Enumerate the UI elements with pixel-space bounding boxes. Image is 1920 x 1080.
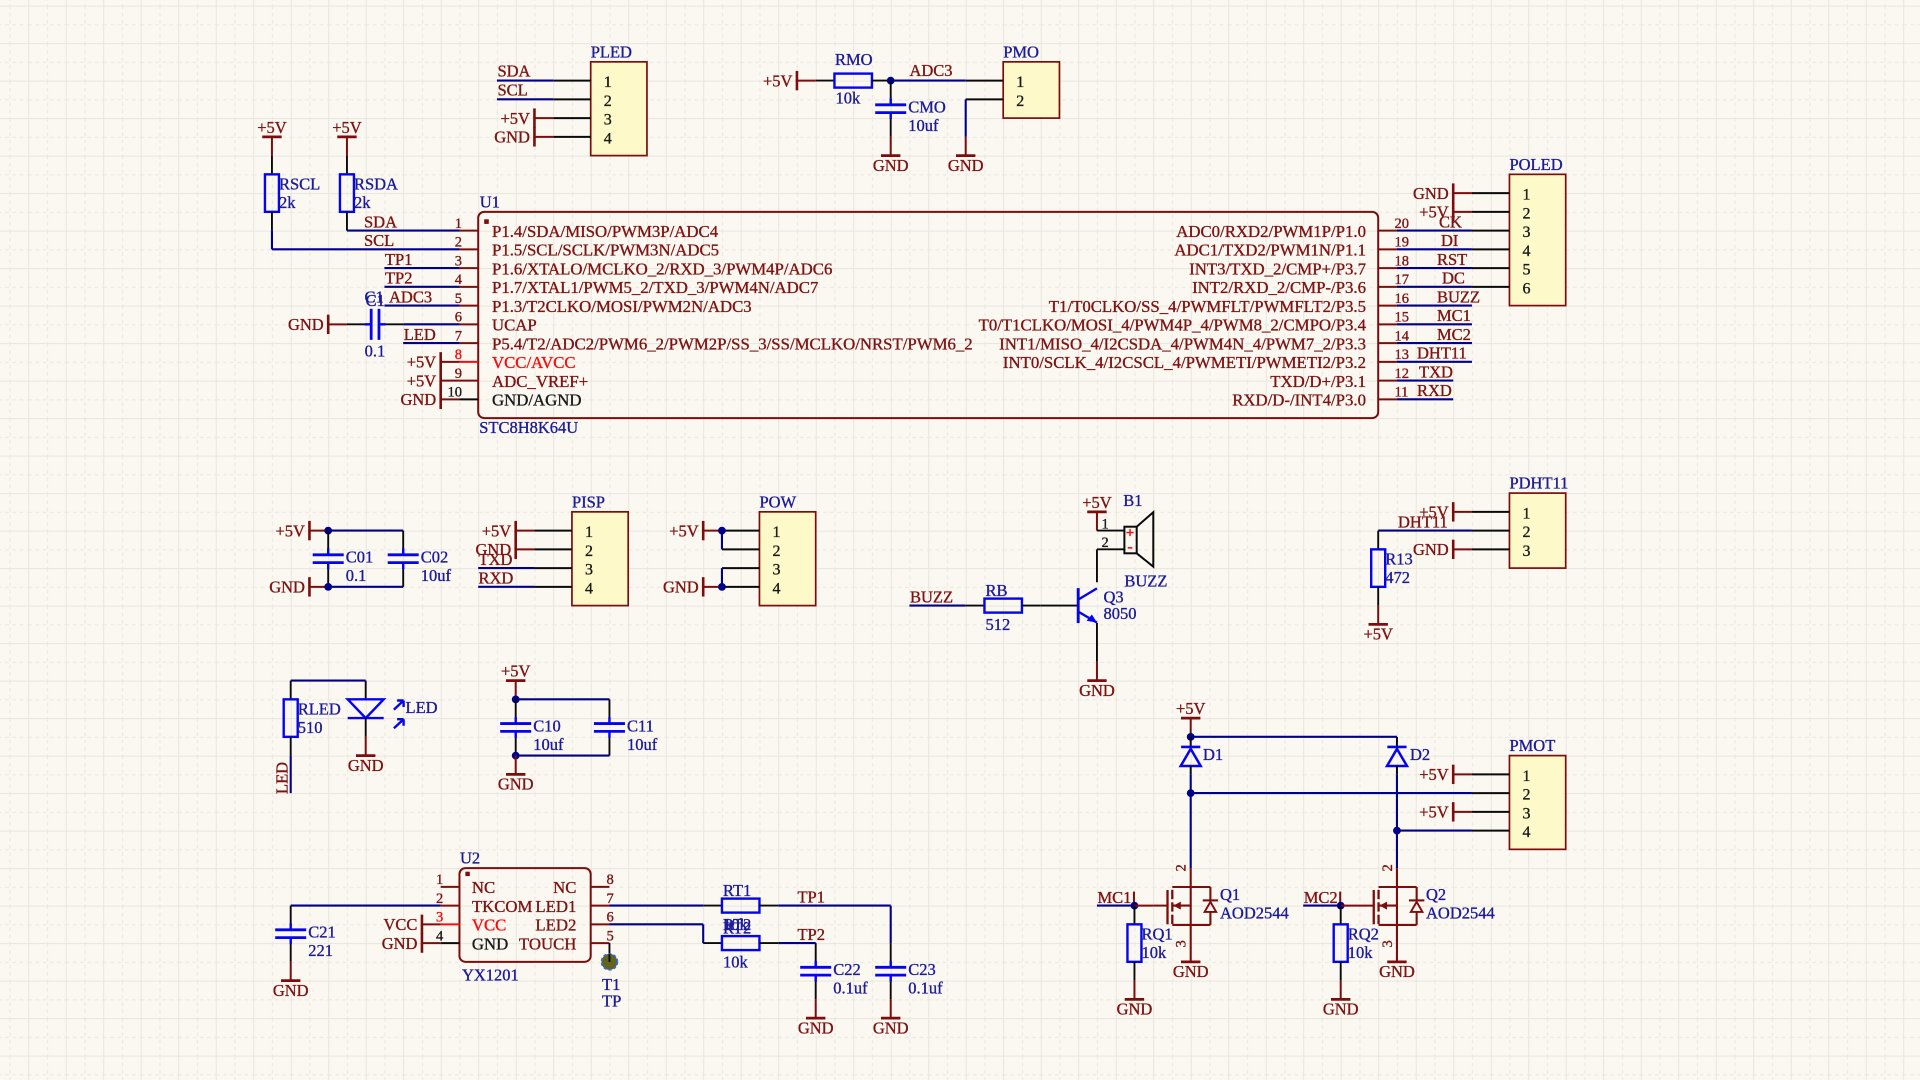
svg-text:1: 1 xyxy=(1102,516,1109,532)
svg-text:+5V: +5V xyxy=(407,371,437,390)
wire net BUZZ (RB) xyxy=(909,605,965,607)
U1 pin 20 (P1.0) xyxy=(1176,216,1409,241)
net label TXD (PISP) xyxy=(479,550,513,569)
svg-text:10k: 10k xyxy=(1141,943,1167,962)
svg-text:4: 4 xyxy=(436,928,444,944)
wire net RXD (U1 right) xyxy=(1397,398,1453,400)
svg-text:BUZZ: BUZZ xyxy=(910,587,953,606)
svg-text:TP2: TP2 xyxy=(797,925,825,944)
capacitor CMO 10uf xyxy=(875,81,946,137)
svg-text:5: 5 xyxy=(1522,262,1530,279)
ground GND port (C01) xyxy=(269,577,309,596)
wire +5V to RMO xyxy=(797,80,816,82)
svg-text:-: - xyxy=(1127,539,1132,556)
wire D1 top to D2 top xyxy=(1191,736,1397,738)
svg-text:INT2/RXD_2/CMP-/P3.6: INT2/RXD_2/CMP-/P3.6 xyxy=(1192,278,1366,297)
ground GND port (PISP pin2) xyxy=(475,540,515,559)
B1 pin 2 number xyxy=(1102,535,1109,551)
svg-text:1: 1 xyxy=(585,524,593,541)
U1 pin 18 (P3.7) xyxy=(1189,253,1409,278)
svg-text:GND: GND xyxy=(382,934,418,953)
ground GND port (POW pin4) xyxy=(663,577,703,596)
svg-text:GND: GND xyxy=(472,934,508,953)
svg-text:GND: GND xyxy=(663,578,699,597)
wire LED to GND stem xyxy=(365,737,367,756)
power +5V port (PDHT11 pin1) xyxy=(1419,502,1453,521)
svg-text:3: 3 xyxy=(1174,940,1190,947)
wire PMO pin2 down xyxy=(965,99,967,137)
U2 pin 1 (NC) xyxy=(436,872,495,897)
power +5V port (B1) xyxy=(1082,493,1112,512)
resistor R13 472 xyxy=(1371,531,1413,606)
svg-text:TXD: TXD xyxy=(1419,362,1453,381)
svg-text:1: 1 xyxy=(1522,768,1530,785)
svg-text:AOD2544: AOD2544 xyxy=(1220,904,1289,923)
wire RT2 to TP2 corner xyxy=(778,942,816,944)
svg-text:+5V: +5V xyxy=(407,353,437,372)
svg-text:STC8H8K64U: STC8H8K64U xyxy=(479,418,578,437)
junction C10 top xyxy=(512,695,520,703)
capacitor C23 0.1uf xyxy=(875,943,943,999)
junction POW pin4 xyxy=(718,583,726,591)
transistor Q1 AOD2544 xyxy=(1168,864,1219,962)
wire CMO to GND xyxy=(890,137,892,156)
svg-text:2: 2 xyxy=(1522,787,1530,804)
svg-text:12: 12 xyxy=(1394,366,1409,382)
net label SDA (U1 pin1) xyxy=(364,212,397,231)
ground GND port (PDHT11 pin3) xyxy=(1413,540,1453,559)
label 8050 xyxy=(1103,604,1136,623)
svg-text:T0/T1CLKO/MOSI_4/PWM4P_4/PWM8_: T0/T1CLKO/MOSI_4/PWM4P_4/PWM8_2/CMPO/P3.… xyxy=(979,316,1367,335)
svg-text:+5V: +5V xyxy=(332,118,362,137)
svg-text:PMOT: PMOT xyxy=(1509,736,1555,755)
svg-text:C23: C23 xyxy=(908,960,936,979)
svg-text:TP: TP xyxy=(602,992,621,1011)
net label DI xyxy=(1441,231,1458,250)
wire RB to Q3 base xyxy=(1041,605,1079,607)
svg-text:+5V: +5V xyxy=(501,662,531,681)
wire +5V to RSCL xyxy=(271,137,273,156)
buzzer B1 xyxy=(1124,512,1153,567)
wire net DHT11 (PDHT11 pin2) xyxy=(1378,530,1472,532)
U1 pin 9 (ADC_VREF+) xyxy=(455,366,588,391)
U1 pin 4 (P1.7) xyxy=(455,272,819,297)
wire net MC2 (gate) xyxy=(1303,905,1341,907)
svg-text:CK: CK xyxy=(1439,212,1462,231)
ground GND port (C1) xyxy=(288,315,328,334)
svg-text:RXD/D-/INT4/P3.0: RXD/D-/INT4/P3.0 xyxy=(1232,391,1366,410)
ground GND port (C21) xyxy=(273,981,309,1000)
label D2 xyxy=(1410,745,1430,764)
wire RT1 to TP1 corner xyxy=(778,906,891,944)
svg-text:221: 221 xyxy=(308,941,333,960)
resistor RT1 10k xyxy=(703,881,778,934)
wire +5V to PDHT11 pin1 xyxy=(1453,511,1472,513)
svg-text:RB: RB xyxy=(985,581,1007,600)
net label SDA (PLED) xyxy=(497,62,530,81)
svg-text:10k: 10k xyxy=(835,88,861,107)
power +5V port (POW pin1) xyxy=(669,521,703,540)
svg-text:10: 10 xyxy=(447,385,462,401)
ground GND port (PLED pin4) xyxy=(494,127,534,146)
label B1 xyxy=(1123,491,1142,510)
wire +5V to POW node xyxy=(703,530,722,532)
svg-text:19: 19 xyxy=(1394,235,1409,251)
svg-text:LED: LED xyxy=(406,698,438,717)
svg-text:P1.5/SCL/SCLK/PWM3N/ADC5: P1.5/SCL/SCLK/PWM3N/ADC5 xyxy=(492,241,719,260)
svg-text:15: 15 xyxy=(1394,310,1409,326)
ground GND port (Q1) xyxy=(1173,962,1209,981)
svg-text:5: 5 xyxy=(455,291,462,307)
svg-text:B1: B1 xyxy=(1123,491,1142,510)
svg-text:P5.4/T2/ADC2/PWM6_2/PWM2P/SS_3: P5.4/T2/ADC2/PWM6_2/PWM2P/SS_3/SS/MCLKO/… xyxy=(492,334,973,353)
svg-text:2: 2 xyxy=(1102,535,1109,551)
connector PISP xyxy=(534,492,628,605)
junction D1 top xyxy=(1187,733,1195,741)
svg-text:4: 4 xyxy=(585,580,593,597)
svg-text:LED: LED xyxy=(404,325,436,344)
svg-text:9: 9 xyxy=(455,366,462,382)
transistor Q3 8050 xyxy=(1078,588,1097,623)
svg-text:TP1: TP1 xyxy=(385,250,413,269)
net label CK xyxy=(1439,212,1462,231)
U1 pin 6 (UCAP) xyxy=(455,310,537,335)
svg-text:4: 4 xyxy=(1522,824,1530,841)
ground GND port (CMO) xyxy=(873,156,909,175)
wire C1 to U1 pin6 xyxy=(403,323,459,325)
net label RXD (PISP) xyxy=(479,569,514,588)
wire Q3 collector to B1 xyxy=(1097,549,1124,582)
svg-text:RMO: RMO xyxy=(835,50,873,69)
wire C10 GND stem xyxy=(515,756,517,775)
wire C01 to C02 top xyxy=(328,530,403,532)
svg-text:2: 2 xyxy=(1174,864,1190,871)
svg-text:TP1: TP1 xyxy=(797,887,825,906)
wire GND to C01 node xyxy=(309,586,328,588)
label AOD2544 (Q2) xyxy=(1426,904,1495,923)
capacitor C10 10uf xyxy=(500,699,564,755)
U2 pin 6 (LED2) xyxy=(535,910,613,935)
power +5V port (PLED pin3) xyxy=(500,108,534,127)
net label RXD xyxy=(1417,381,1452,400)
wire net TKCOM to C21 xyxy=(291,905,441,907)
power +5V port (PMOT pin1) xyxy=(1419,765,1453,784)
svg-text:3: 3 xyxy=(585,562,593,579)
wire Q3 emitter to GND xyxy=(1096,623,1098,662)
net label SCL (PLED) xyxy=(497,80,527,99)
junction C10 bottom xyxy=(512,752,520,760)
svg-text:TXD: TXD xyxy=(479,550,513,569)
svg-text:RST: RST xyxy=(1437,250,1467,269)
wire MC1 junction to gate xyxy=(1134,905,1167,907)
wire net MC2 (U1 right) xyxy=(1397,342,1472,344)
svg-text:MC1: MC1 xyxy=(1437,306,1471,325)
label Q1 xyxy=(1220,885,1240,904)
svg-text:GND: GND xyxy=(1173,962,1209,981)
svg-text:ADC0/RXD2/PWM1P/P1.0: ADC0/RXD2/PWM1P/P1.0 xyxy=(1176,222,1366,241)
power +5V port (RMO) xyxy=(763,71,797,90)
test point T1 xyxy=(601,943,617,970)
wire motor A to Q1 drain xyxy=(1190,793,1192,868)
svg-text:GND: GND xyxy=(269,578,305,597)
svg-text:UCAP: UCAP xyxy=(492,316,537,335)
wire R13 to +5V stem xyxy=(1377,606,1379,625)
U1 pin 19 (P1.1) xyxy=(1174,235,1409,260)
svg-text:1: 1 xyxy=(436,872,443,888)
wire motor A net to PMOT pin2 xyxy=(1191,792,1472,794)
svg-text:0.1: 0.1 xyxy=(346,566,367,585)
wire C21 GND stem xyxy=(290,962,292,981)
net label ADC3 (U1 pin5) xyxy=(389,287,432,306)
svg-text:POW: POW xyxy=(759,492,796,511)
wire net TXD (U1 right) xyxy=(1397,380,1453,382)
svg-text:RT2: RT2 xyxy=(723,918,751,937)
svg-text:6: 6 xyxy=(1522,280,1530,297)
U2 pin 3 (VCC) xyxy=(436,910,506,935)
wire MC2 junction to gate xyxy=(1341,905,1374,907)
svg-text:C21: C21 xyxy=(308,923,336,942)
svg-text:AOD2544: AOD2544 xyxy=(1426,904,1495,923)
svg-text:4: 4 xyxy=(1522,243,1530,260)
svg-text:TP2: TP2 xyxy=(385,269,413,288)
svg-text:1: 1 xyxy=(604,74,612,91)
svg-text:C1: C1 xyxy=(366,291,385,310)
wire +5V to PMOT pin1 xyxy=(1453,773,1472,775)
svg-text:2: 2 xyxy=(436,891,443,907)
wire +5V to C01 node xyxy=(309,530,328,532)
svg-text:D2: D2 xyxy=(1410,745,1430,764)
connector PLED xyxy=(553,42,647,155)
svg-text:4: 4 xyxy=(772,580,780,597)
net label ADC3 (PMO) xyxy=(909,61,952,80)
svg-text:10k: 10k xyxy=(1348,943,1374,962)
wire C23 GND stem xyxy=(890,999,892,1018)
svg-text:GND: GND xyxy=(1117,1000,1153,1019)
wire GND to U2 pin4 xyxy=(422,942,441,944)
wire net ADC3 (U1 pin5) xyxy=(384,305,459,307)
net label DC xyxy=(1442,269,1465,288)
svg-text:VCC/AVCC: VCC/AVCC xyxy=(492,353,576,372)
svg-text:GND: GND xyxy=(1379,962,1415,981)
svg-text:+5V: +5V xyxy=(1176,699,1206,718)
svg-text:Q1: Q1 xyxy=(1220,885,1240,904)
svg-text:CMO: CMO xyxy=(908,98,946,117)
svg-text:ADC_VREF+: ADC_VREF+ xyxy=(492,372,588,391)
svg-text:+5V: +5V xyxy=(500,109,530,128)
svg-text:1: 1 xyxy=(455,216,462,232)
svg-text:GND: GND xyxy=(873,1018,909,1037)
svg-text:6: 6 xyxy=(606,910,613,926)
label Q2 xyxy=(1426,885,1446,904)
svg-text:GND: GND xyxy=(400,390,436,409)
svg-text:18: 18 xyxy=(1394,253,1409,269)
U2 pin 7 (LED1) xyxy=(535,891,613,916)
net label TXD xyxy=(1419,362,1453,381)
wire node to PMO pin1 xyxy=(891,80,966,82)
svg-text:GND: GND xyxy=(1413,184,1449,203)
svg-text:PLED: PLED xyxy=(591,42,632,61)
wire RLED top link xyxy=(291,680,366,682)
svg-text:3: 3 xyxy=(1522,224,1530,241)
resistor RT2 10k xyxy=(703,918,778,971)
svg-text:C22: C22 xyxy=(833,960,861,979)
U1 pin 13 (P3.2) xyxy=(1003,347,1409,372)
wire net DHT11 (U1 right) xyxy=(1397,361,1472,363)
svg-text:20: 20 xyxy=(1394,216,1409,232)
svg-text:8: 8 xyxy=(606,872,613,888)
svg-text:LED1: LED1 xyxy=(535,897,576,916)
svg-text:ADC1/TXD2/PWM1N/P1.1: ADC1/TXD2/PWM1N/P1.1 xyxy=(1174,241,1366,260)
svg-text:POLED: POLED xyxy=(1509,155,1562,174)
svg-text:3: 3 xyxy=(1522,805,1530,822)
ground GND port (POLED pin1) xyxy=(1413,183,1453,202)
svg-text:10uf: 10uf xyxy=(533,735,564,754)
svg-text:+5V: +5V xyxy=(257,118,287,137)
svg-text:4: 4 xyxy=(604,130,612,147)
svg-text:11: 11 xyxy=(1394,385,1408,401)
svg-text:10k: 10k xyxy=(723,953,749,972)
svg-text:14: 14 xyxy=(1394,328,1409,344)
label TP xyxy=(602,992,621,1011)
ground GND port (Q2) xyxy=(1379,962,1415,981)
svg-text:GND: GND xyxy=(1323,1000,1359,1019)
wire +5V to PISP pin1 xyxy=(516,530,535,532)
svg-text:510: 510 xyxy=(298,718,323,737)
net label TP2 (U1 pin4) xyxy=(385,269,413,288)
svg-text:C11: C11 xyxy=(627,716,654,735)
U1 pin 1 (P1.4) xyxy=(455,216,719,241)
B1 pin 1 number xyxy=(1102,516,1109,532)
svg-text:5: 5 xyxy=(606,928,613,944)
resistor RLED 510 xyxy=(284,681,341,756)
svg-text:+5V: +5V xyxy=(275,521,305,540)
power +5V port (R13) xyxy=(1363,624,1393,643)
svg-text:2: 2 xyxy=(585,543,593,560)
svg-text:10uf: 10uf xyxy=(421,566,452,585)
svg-text:MC1: MC1 xyxy=(1097,888,1131,907)
U1 pin 15 (P3.4) xyxy=(979,310,1409,335)
svg-text:2: 2 xyxy=(772,543,780,560)
svg-text:RT1: RT1 xyxy=(723,881,751,900)
label AOD2544 (Q1) xyxy=(1220,904,1289,923)
wire C10 to C11 top xyxy=(516,698,610,700)
svg-text:3: 3 xyxy=(1380,940,1396,947)
svg-text:2k: 2k xyxy=(279,193,296,212)
wire +5V to U1 pin9 xyxy=(441,380,460,382)
wire +5V to POLED pin2 xyxy=(1453,211,1472,213)
svg-text:3: 3 xyxy=(455,253,462,269)
svg-text:+5V: +5V xyxy=(1419,803,1449,822)
svg-text:RXD: RXD xyxy=(1417,381,1452,400)
svg-text:GND: GND xyxy=(873,156,909,175)
svg-text:512: 512 xyxy=(985,615,1010,634)
svg-text:2: 2 xyxy=(455,235,462,251)
power +5V port (PISP pin1) xyxy=(482,521,516,540)
wire motor B net to PMOT pin4 xyxy=(1397,830,1472,832)
resistor RQ2 10k xyxy=(1334,906,1379,981)
svg-text:6: 6 xyxy=(455,310,462,326)
wire net TP1 (U1 pin3) xyxy=(384,267,459,269)
power +5V port (C01) xyxy=(275,521,309,540)
svg-text:R13: R13 xyxy=(1385,549,1413,568)
svg-text:INT1/MISO_4/I2CSDA_4/PWM4N_4/P: INT1/MISO_4/I2CSDA_4/PWM4N_4/PWM7_2/P3.3 xyxy=(999,334,1366,353)
ground GND port (U2 pin4) xyxy=(382,933,422,952)
junction C01 top xyxy=(324,527,332,535)
svg-text:1: 1 xyxy=(1016,74,1024,91)
svg-text:16: 16 xyxy=(1394,291,1409,307)
svg-text:GND: GND xyxy=(798,1018,834,1037)
svg-text:10uf: 10uf xyxy=(627,735,658,754)
capacitor C01 0.1 xyxy=(313,531,374,587)
connector PDHT11 xyxy=(1472,474,1568,568)
wire net SDA to PLED pin1 xyxy=(497,80,553,82)
U1 pin 8 (VCC) xyxy=(455,347,576,372)
wire +5V to C10 node xyxy=(515,681,517,700)
svg-text:3: 3 xyxy=(436,910,443,926)
power +5V port (C10) xyxy=(501,662,531,681)
net label MC2 xyxy=(1437,325,1471,344)
power +5V port (PMOT pin3) xyxy=(1419,802,1453,821)
ground GND port (Q3) xyxy=(1079,681,1115,700)
wire RSCL to SCL net xyxy=(272,231,460,250)
svg-text:1: 1 xyxy=(1522,187,1530,204)
svg-text:C02: C02 xyxy=(421,548,449,567)
svg-text:2: 2 xyxy=(1380,864,1396,871)
svg-text:17: 17 xyxy=(1394,272,1409,288)
svg-text:2k: 2k xyxy=(354,193,371,212)
svg-text:SCL: SCL xyxy=(364,231,394,250)
svg-text:INT0/SCLK_4/I2CSCL_4/PWMETI/PW: INT0/SCLK_4/I2CSCL_4/PWMETI/PWMETI2/P3.2 xyxy=(1003,353,1366,372)
net label LED (vertical) xyxy=(273,762,292,794)
wire GND to PDHT11 pin3 xyxy=(1453,548,1472,550)
wire net DC (U1 right) xyxy=(1397,286,1472,288)
wire Q3 GND stem xyxy=(1096,662,1098,681)
junction D1 bottom xyxy=(1187,789,1195,797)
wire POW pin1-pin2 link xyxy=(721,531,723,550)
net label TP2 (RT2) xyxy=(797,925,825,944)
svg-text:TKCOM: TKCOM xyxy=(472,897,533,916)
svg-text:P1.6/XTALO/MCLKO_2/RXD_3/PWM4P: P1.6/XTALO/MCLKO_2/RXD_3/PWM4P/ADC6 xyxy=(492,259,832,278)
wire net MC1 (gate) xyxy=(1097,905,1135,907)
wire GND to C1 xyxy=(328,323,347,325)
svg-text:MC2: MC2 xyxy=(1304,888,1338,907)
ground GND port (RQ2) xyxy=(1323,999,1359,1018)
svg-text:LED2: LED2 xyxy=(535,916,576,935)
svg-text:P1.3/T2CLKO/MOSI/PWM2N/ADC3: P1.3/T2CLKO/MOSI/PWM2N/ADC3 xyxy=(492,297,752,316)
svg-text:LED: LED xyxy=(273,762,292,794)
op-amp U1 body STC8H8K64U xyxy=(478,192,1378,437)
connector PMOT xyxy=(1472,736,1566,849)
svg-text:P1.7/XTAL1/PWM5_2/TXD_3/PWM4N/: P1.7/XTAL1/PWM5_2/TXD_3/PWM4N/ADC7 xyxy=(492,278,818,297)
svg-text:BUZZ: BUZZ xyxy=(1124,572,1167,591)
net label BUZZ (RB) xyxy=(910,587,953,606)
transistor Q2 AOD2544 xyxy=(1374,864,1425,962)
svg-text:RSCL: RSCL xyxy=(279,174,320,193)
net label LED (U1 pin7) xyxy=(404,325,436,344)
ground GND port (LED) xyxy=(348,756,384,775)
U2 pin 5 (TOUCH) xyxy=(519,928,614,953)
svg-text:RLED: RLED xyxy=(298,699,341,718)
svg-text:2: 2 xyxy=(1522,524,1530,541)
svg-text:GND: GND xyxy=(348,756,384,775)
net label C1 ref xyxy=(365,287,384,306)
wire C01 to C02 bottom xyxy=(328,586,403,588)
label D1 xyxy=(1203,745,1223,764)
ground GND port (C22) xyxy=(798,1018,834,1037)
op-amp U2 body YX1201 xyxy=(459,849,590,985)
svg-text:TXD/D+/P3.1: TXD/D+/P3.1 xyxy=(1270,372,1366,391)
wire +5V to PLED pin3 xyxy=(534,117,553,119)
